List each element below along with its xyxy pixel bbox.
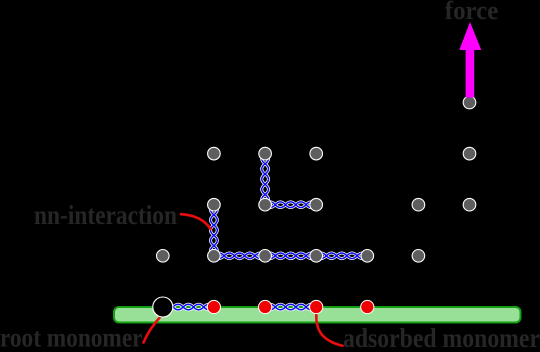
svg-text:adsorbed monomer: adsorbed monomer [343, 323, 540, 352]
svg-text:force: force [445, 0, 499, 25]
svg-text:root monomer: root monomer [0, 323, 143, 352]
svg-text:nn-interaction: nn-interaction [34, 200, 177, 230]
